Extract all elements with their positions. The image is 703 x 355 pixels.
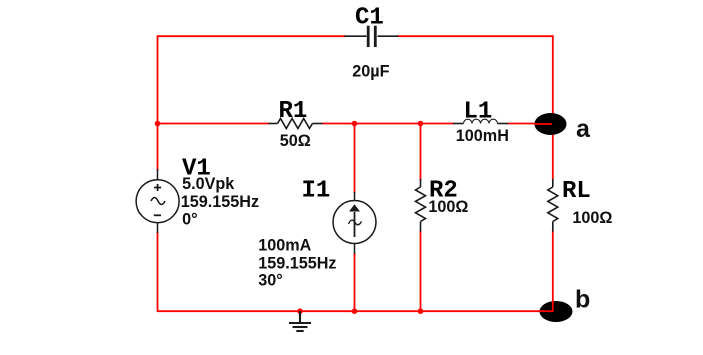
resistor R1 xyxy=(269,119,323,129)
svg-text:a: a xyxy=(576,115,591,143)
svg-text:100Ω: 100Ω xyxy=(428,198,468,216)
svg-text:50Ω: 50Ω xyxy=(280,132,311,150)
source V1 (AC voltage source symbol) xyxy=(136,169,179,233)
junction ground node on bottom rail xyxy=(297,308,303,314)
wire I1 branch lower (I1 bottom to bottom rail) xyxy=(354,253,356,311)
svg-text:R1: R1 xyxy=(279,98,308,125)
wire middle horizontal (R1 right lead to L1 left lead) xyxy=(322,123,455,125)
wire top-left horizontal (top-left corner to C1 left lead) xyxy=(158,35,346,37)
svg-text:100Ω: 100Ω xyxy=(572,209,612,227)
svg-text:159.155Hz: 159.155Hz xyxy=(258,254,336,272)
wire right vertical lower (RL to node b) xyxy=(552,231,554,312)
wire stub into node b (horizontal) xyxy=(539,310,554,312)
wire bottom horizontal (bottom rail to node b) xyxy=(158,310,553,312)
wire left vertical lower (V1 minus terminal to bottom-left corner) xyxy=(157,232,159,312)
svg-text:159.155Hz: 159.155Hz xyxy=(181,193,259,211)
wire R2 branch upper (middle rail down to R2 top lead) xyxy=(420,124,422,181)
junction R2 bottom node on bottom rail xyxy=(418,308,424,314)
wire right vertical upper (top-right corner through node a to RL) xyxy=(552,35,554,180)
capacitor C1 xyxy=(345,26,399,47)
wire stub into node b (vertical) xyxy=(552,301,554,313)
node b (terminal dot) xyxy=(540,301,573,322)
inductor L1 xyxy=(453,119,508,123)
junction I1 top node on middle rail xyxy=(352,121,358,127)
wire stub into node a xyxy=(534,123,552,125)
svg-text:100mH: 100mH xyxy=(456,127,509,145)
svg-text:5.0Vpk: 5.0Vpk xyxy=(182,175,235,193)
junction R2 top node on middle rail xyxy=(418,121,424,127)
svg-text:100mA: 100mA xyxy=(258,237,311,255)
svg-text:I1: I1 xyxy=(302,178,331,205)
wire middle horizontal (L1 right lead to node a) xyxy=(507,123,553,125)
svg-text:L1: L1 xyxy=(464,99,493,126)
svg-text:b: b xyxy=(575,286,590,314)
wire R2 branch lower (R2 bottom lead to bottom rail) xyxy=(420,231,422,312)
ground xyxy=(289,311,311,331)
svg-text:30°: 30° xyxy=(258,271,282,289)
resistor RL xyxy=(548,179,558,232)
node a (terminal dot) xyxy=(535,113,567,135)
svg-text:C1: C1 xyxy=(355,5,384,32)
junction V1/R1 node on middle rail xyxy=(155,121,161,127)
wire I1 branch upper (middle rail down to I1 top) xyxy=(354,124,356,194)
svg-text:20µF: 20µF xyxy=(352,62,389,80)
wire middle horizontal (V1 node to R1 left lead) xyxy=(158,123,270,125)
wire top-right horizontal (C1 right lead to top-right corner) xyxy=(398,35,553,37)
svg-text:0°: 0° xyxy=(182,211,197,229)
source I1 (AC current source symbol) xyxy=(333,192,376,254)
svg-text:RL: RL xyxy=(562,178,591,205)
resistor R2 xyxy=(416,179,426,232)
wire left vertical upper (top-left corner down to V1 plus terminal) xyxy=(157,35,159,170)
junction I1 bottom node on bottom rail xyxy=(352,308,358,314)
